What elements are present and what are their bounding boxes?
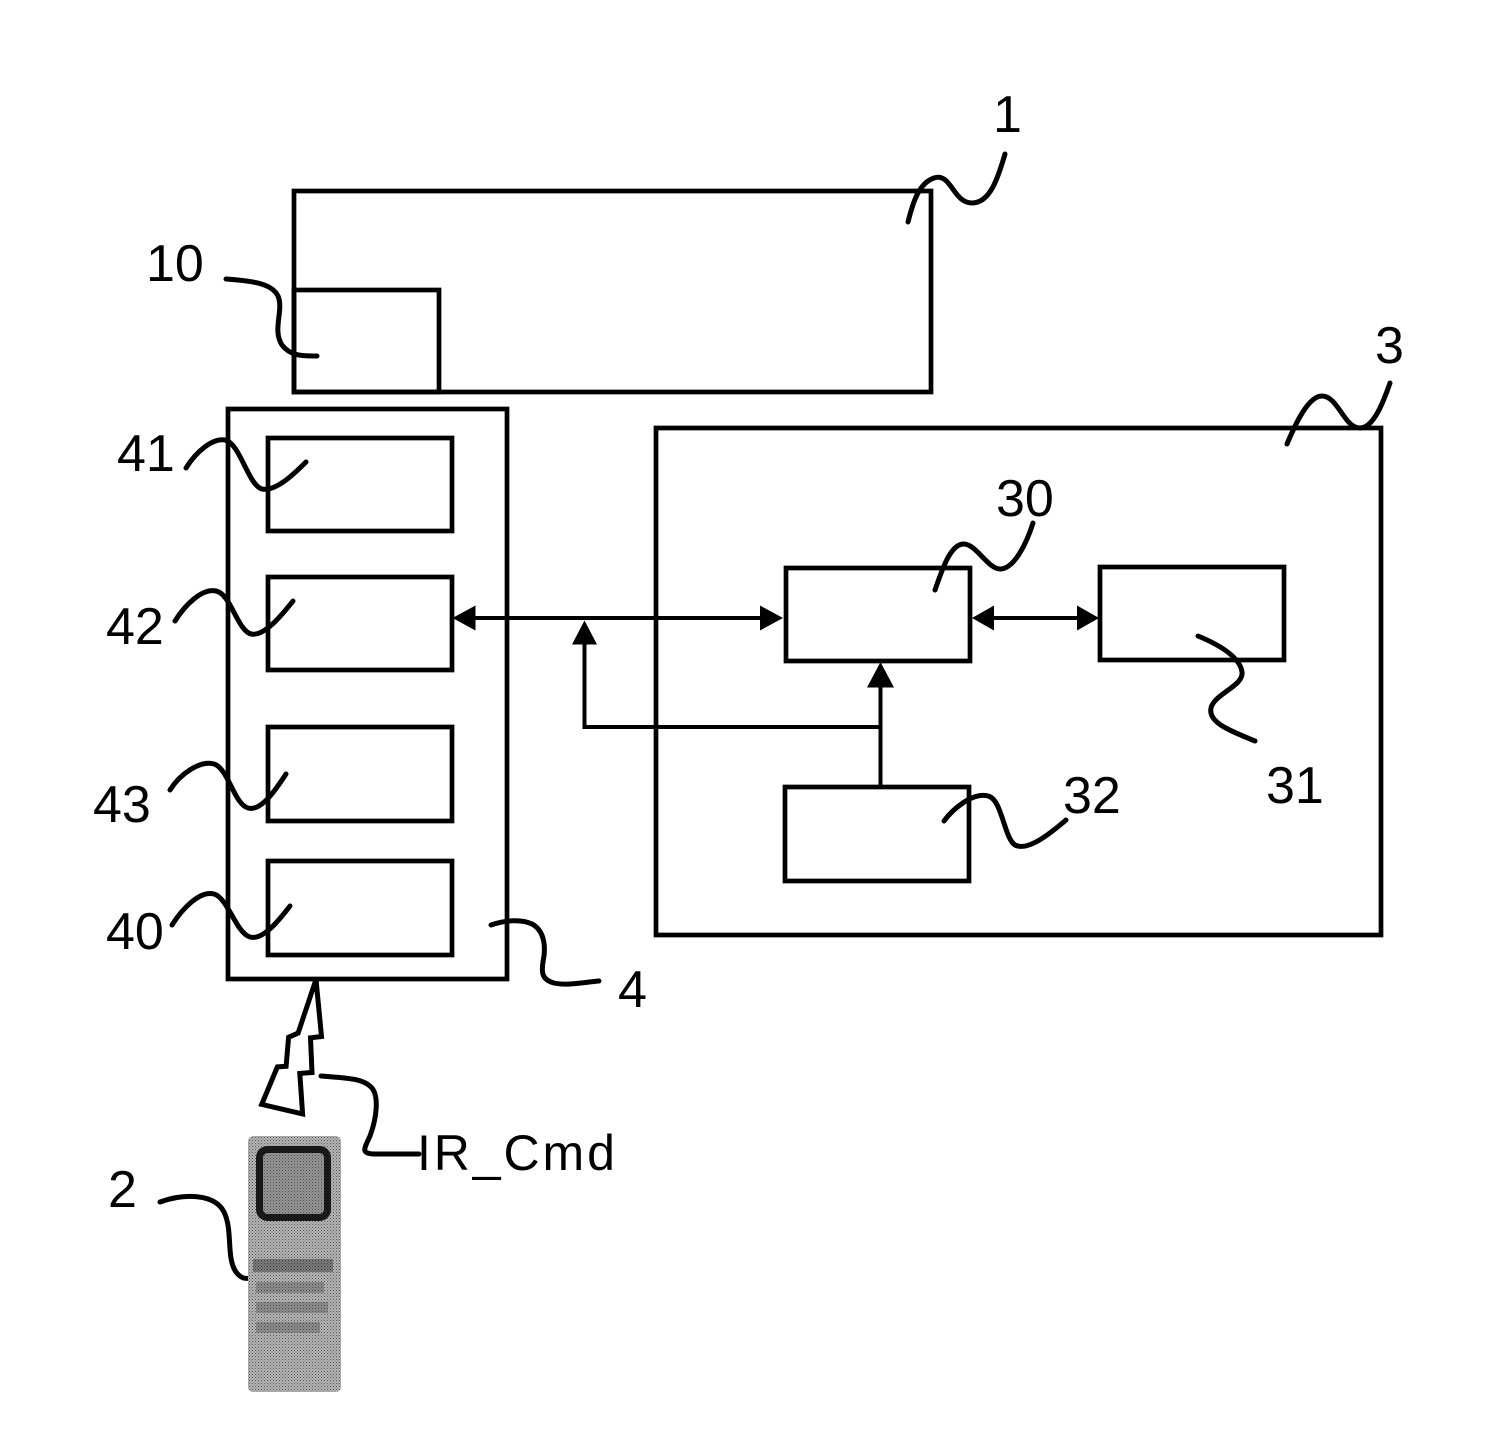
svg-text:40: 40 [106,903,164,961]
svg-text:2: 2 [108,1161,137,1219]
svg-text:IR_Cmd: IR_Cmd [417,1125,618,1181]
svg-text:32: 32 [1063,767,1121,825]
svg-text:31: 31 [1266,757,1324,815]
svg-text:10: 10 [146,235,204,293]
svg-text:41: 41 [117,425,175,483]
svg-text:1: 1 [993,86,1022,144]
svg-text:30: 30 [996,470,1054,528]
svg-text:3: 3 [1375,317,1404,375]
svg-text:42: 42 [106,598,164,656]
svg-text:43: 43 [93,776,151,834]
svg-text:4: 4 [618,961,647,1019]
